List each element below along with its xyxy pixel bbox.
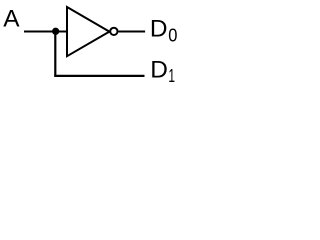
svg-text:1: 1 (168, 66, 175, 86)
svg-text:D: D (150, 56, 168, 83)
wire input A to inverter (24, 31, 67, 33)
svg-text:D: D (150, 15, 168, 42)
wire bottom to D1 (54, 75, 144, 77)
wire junction down (54, 31, 56, 76)
inverter bubble (110, 28, 117, 35)
inverter U1 triangle (67, 7, 109, 56)
svg-text:A: A (3, 6, 20, 33)
wire bubble to D0 (118, 31, 145, 33)
svg-text:0: 0 (168, 24, 177, 45)
junction dot (52, 28, 59, 35)
